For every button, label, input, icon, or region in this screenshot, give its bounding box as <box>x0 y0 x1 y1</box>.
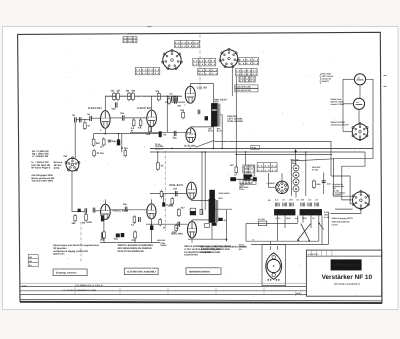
label R20 value <box>100 239 105 242</box>
note bracket text (record jack) <box>322 73 335 83</box>
svg-text:0,5M: 0,5M <box>86 221 91 224</box>
wire coupling to V7 grid <box>150 193 187 195</box>
label R8 value <box>100 146 103 149</box>
wire V6 anode to transformer <box>191 126 214 129</box>
svg-text:M EL 84 IV: M EL 84 IV <box>169 184 183 187</box>
resistor R12 dark <box>159 131 162 137</box>
svg-text:WANTE: WANTE <box>322 80 330 83</box>
junction bus d <box>201 151 203 153</box>
pinout table D (right of socket S2) <box>239 58 259 66</box>
wire J2 left lead <box>343 103 353 105</box>
pinout table G1 <box>239 76 255 82</box>
wire C3 to C4 <box>76 119 89 121</box>
label R13 value <box>166 95 169 98</box>
svg-text:8.8 8.8 8.8: 8.8 8.8 8.8 <box>240 79 256 82</box>
choke block above T2 <box>209 190 215 199</box>
pinout table E (below table C) <box>198 68 218 75</box>
capacitor C20 <box>178 222 180 227</box>
svg-text:NNN NNNN: NNN NNNN <box>218 192 229 195</box>
wire winding down e <box>310 215 312 228</box>
supply bus upper <box>150 147 373 149</box>
resistor R7 cathode <box>92 138 95 147</box>
callout box Alternating <box>124 268 158 275</box>
label R19 value <box>131 224 135 227</box>
junction B+ d <box>174 95 176 97</box>
svg-text:Verstärker NF 10: Verstärker NF 10 <box>322 274 373 281</box>
junction blob below T2 <box>212 223 217 226</box>
svg-text:NNN NNLN/NN 5W: NNN NNLN/NN 5W <box>332 220 350 223</box>
wire winding down b <box>284 215 286 228</box>
capacitor C19 <box>175 191 177 196</box>
svg-text:1.5.1 NNNN 4.3: 1.5.1 NNNN 4.3 N. N. 1 N N. N. <box>75 284 103 287</box>
svg-text:WELLE ASSEMBLE DU CONDITION NN: WELLE ASSEMBLE DU CONDITION NNNN <box>184 245 230 248</box>
svg-text:DU WORN N DE NNNNN NN NNN: DU WORN N DE NNNNN NN NNN <box>184 251 220 254</box>
resistor R14 screen <box>182 111 185 120</box>
note speaker socket <box>333 183 347 197</box>
svg-text:8.8 8.8 8.8: 8.8 8.8 8.8 <box>198 69 218 72</box>
tone box LS5 <box>245 166 255 176</box>
resistor R6 grid leak <box>83 121 86 130</box>
title block outer box <box>306 250 381 296</box>
label transformer T1 top <box>214 98 227 103</box>
svg-text:Toleranz ±20% NNN: Toleranz ±20% NNN <box>31 179 53 182</box>
svg-text:Eingangs variation: Eingangs variation <box>56 272 77 275</box>
wire J3 left lead <box>343 131 352 133</box>
label R23 value <box>163 226 166 229</box>
wire C4 to V1 grid <box>91 117 100 119</box>
label V1 pin <box>100 129 102 132</box>
svg-text:Masse gemessen NN: Masse gemessen NN <box>31 177 54 180</box>
note text (playback jack) <box>331 98 345 106</box>
svg-text:DUAL GAUGE: DUAL GAUGE <box>227 120 243 123</box>
diode D1 <box>293 165 299 171</box>
speaker wire below b <box>330 209 361 214</box>
svg-text:8.8 8.8: 8.8 8.8 <box>243 170 255 173</box>
label T1 below-right <box>217 127 223 132</box>
svg-text:Klirr NN 1kHz NN: Klirr NN 1kHz NN <box>31 164 50 167</box>
wire mains left drop <box>245 223 247 241</box>
label C8 value <box>173 137 178 140</box>
svg-text:NF Norm-Pegel N: NF Norm-Pegel N <box>31 166 50 169</box>
junction bus j <box>305 151 307 153</box>
capacitor C2b <box>176 96 178 102</box>
wire V1 anode up <box>104 96 106 110</box>
wire input jack down to lower channel <box>72 171 84 211</box>
junction arrow lower return <box>225 239 227 242</box>
label C9 value <box>177 104 182 107</box>
label R27b <box>234 173 237 176</box>
svg-text:8.8 8.8 8.8: 8.8 8.8 8.8 <box>258 169 278 172</box>
svg-text:50μ: 50μ <box>112 108 117 111</box>
resistor R28 bleeder <box>312 179 315 189</box>
svg-text:1M: 1M <box>111 90 114 93</box>
capacitor C8 <box>174 131 176 136</box>
svg-text:8.8 8.8 8.8: 8.8 8.8 8.8 <box>198 72 218 75</box>
svg-text:1.4 5.16 NN 8.5 NNNNNN: 1.4 5.16 NN 8.5 NNNNNNN N.N. NNN <box>62 289 97 292</box>
speaker output table <box>332 217 354 226</box>
fold mark right <box>384 75 387 77</box>
wire right return lower <box>225 210 227 241</box>
annotation mains (french) <box>201 245 248 253</box>
resistor R19 <box>133 215 136 224</box>
junction bus b <box>171 148 173 150</box>
resistor R18 dark <box>101 215 104 221</box>
wire V4 anode stub <box>150 199 152 204</box>
junction arrow rectifier feed <box>294 149 297 152</box>
capacitor C18 dark <box>121 233 125 237</box>
svg-text:8.8 8.8 8.8: 8.8 8.8 8.8 <box>239 62 259 65</box>
svg-text:25μ: 25μ <box>173 137 178 140</box>
mains plug box <box>262 245 286 286</box>
svg-text:(TP-8024-1003/627): (TP-8024-1003/627) <box>334 282 360 286</box>
mains table P1 (voltage settings) <box>257 163 277 172</box>
output transformer T2 secondary <box>216 200 218 223</box>
resistor R30 <box>160 190 163 199</box>
label selector <box>267 182 275 185</box>
capacitor C13 lower input b <box>93 208 95 213</box>
mains transformer windings <box>275 203 318 207</box>
wire coupling to V8 grid <box>146 223 188 225</box>
wire psu right drop <box>327 212 329 244</box>
svg-text:50μ: 50μ <box>112 140 117 143</box>
tone blob b <box>244 176 251 181</box>
mains wire bottom a <box>246 240 319 242</box>
label R15 <box>161 164 164 167</box>
svg-text:8.8 8.8 8.8 8.8: 8.8 8.8 8.8 8.8 <box>236 69 257 72</box>
output transformer T1 secondary <box>218 104 220 127</box>
capacitor C7 coupling <box>120 112 125 120</box>
svg-text:10n: 10n <box>123 203 128 206</box>
frame bottom inner line <box>20 299 382 301</box>
svg-text:Anschluss DRAHT: Anschluss DRAHT <box>331 124 350 127</box>
section divider dash-dot (top) <box>199 35 201 91</box>
pinout table C (between sockets) <box>193 58 216 66</box>
tone blob a <box>230 177 236 181</box>
label R11 value <box>146 133 151 136</box>
resistor R7b <box>93 149 96 157</box>
shield dash line input <box>80 222 82 262</box>
capacitor C4 input <box>87 113 91 121</box>
screen feed wire a <box>201 152 203 215</box>
wire J1 left lead <box>343 78 354 80</box>
label C17 value <box>114 238 119 241</box>
svg-text:nn NN: nn NN <box>312 168 319 171</box>
wire tone feed vertical <box>235 76 237 167</box>
output transformer T1 primary <box>211 103 218 127</box>
svg-text:JP 10n: JP 10n <box>96 152 104 155</box>
switch contact a <box>297 240 299 242</box>
wire selector up <box>281 173 283 181</box>
svg-text:8.8 8.8 8.8 8.8: 8.8 8.8 8.8 8.8 <box>136 72 160 75</box>
mains transformer core left <box>274 209 295 215</box>
svg-text:C = 5000pF NN: C = 5000pF NN <box>32 155 48 158</box>
label T2 w20 <box>218 197 223 200</box>
label bus left <box>144 145 146 148</box>
mains transformer core right <box>300 209 322 215</box>
svg-text:NFN NNNN-NNNN NN NNNNNN: NFN NNNN-NNNN NN NNNNNN <box>118 247 152 250</box>
svg-text:NNNNNNN NNNNN: NNNNNNN NNNNN <box>189 270 210 273</box>
pinout table A (above socket S1) <box>175 40 200 48</box>
svg-text:NN: NN <box>29 260 32 263</box>
svg-text:0513-AP40.1-88: 0513-AP40.1-88 <box>235 86 251 89</box>
label psu node <box>290 159 299 162</box>
socket J3 (DIN remote) <box>352 123 368 141</box>
wire T1 secondary out <box>220 115 222 149</box>
junction bus h <box>236 154 238 156</box>
hatched winding box <box>240 179 256 184</box>
capacitor C22 psu <box>322 181 326 183</box>
voltage selector SEL <box>276 181 288 193</box>
part dark lower mid <box>162 202 165 206</box>
svg-text:Ra = 0,1MΩ 1W: Ra = 0,1MΩ 1W <box>32 150 49 153</box>
svg-text:NN: NN <box>239 248 242 251</box>
logo plate STERN-RADIO <box>331 259 362 270</box>
mains table P2 <box>243 165 255 173</box>
svg-text:0513-AB-017-88: 0513-AB-017-88 <box>235 89 251 92</box>
svg-text:STERN-RADIO: STERN-RADIO <box>333 263 359 267</box>
label T2 top <box>218 192 229 195</box>
title block header row <box>306 250 381 256</box>
junction B+ c <box>158 95 160 97</box>
resistor R8 <box>102 137 105 146</box>
paper top edge tick <box>147 26 152 28</box>
resistor R24 <box>178 208 181 217</box>
resistor R21 <box>134 230 137 239</box>
wire coupling to EL84 grid <box>165 101 185 103</box>
svg-text:220k: 220k <box>168 205 174 208</box>
svg-text:NNN NN: NNN NN <box>157 239 165 242</box>
svg-text:8.8 8.8 8.8: 8.8 8.8 8.8 <box>240 77 256 80</box>
capacitor C3b input <box>79 117 81 122</box>
callout box right <box>186 268 221 275</box>
junction bus g <box>221 148 223 150</box>
capacitor C2a <box>170 92 174 101</box>
resistor R23 <box>159 218 162 226</box>
resistor R5 <box>155 90 160 102</box>
capacitor C10 dark <box>205 116 208 120</box>
label below plug wire <box>253 238 255 241</box>
svg-text:U~ = 250mV NN: U~ = 250mV NN <box>31 161 48 164</box>
label R17a <box>72 222 77 225</box>
svg-text:8.8 8.8 8.8 8.8: 8.8 8.8 8.8 8.8 <box>136 68 160 71</box>
label R7b <box>96 152 104 155</box>
label winding mid2 <box>295 217 298 220</box>
wire R7 up <box>93 134 95 140</box>
wire R20 down <box>103 238 105 243</box>
label T1 below-left <box>208 127 214 132</box>
svg-text:10n: 10n <box>177 104 182 107</box>
label TR NL <box>155 143 162 146</box>
label TER ML <box>155 145 164 150</box>
svg-text:6,3V~: 6,3V~ <box>275 217 281 220</box>
resistor R31 outline <box>200 209 203 214</box>
svg-text:NN: NN <box>224 219 227 222</box>
diode D4 <box>293 186 299 192</box>
capacitor C21 boxed <box>190 208 196 215</box>
label part lower mid <box>166 204 172 207</box>
resistor R13 grid stopper <box>168 97 170 105</box>
label C19 value <box>173 188 178 191</box>
capacitor C1 <box>112 102 118 110</box>
wire mains table feed <box>245 152 247 165</box>
wire winding down f <box>318 215 320 241</box>
bracket brace <box>319 74 322 84</box>
note measurement <box>31 174 54 182</box>
wire V2 cathode down <box>151 127 153 133</box>
label fuse <box>258 218 265 221</box>
pinout table B (left of socket S1) <box>135 67 160 75</box>
svg-text:8.8 8.8: 8.8 8.8 <box>243 166 255 169</box>
triode V2 (ECC83 II) <box>147 110 157 126</box>
tube socket S2 (bottom view) <box>219 48 239 67</box>
junction V4 grid <box>151 223 153 225</box>
wire rectifier to transformer <box>295 192 297 198</box>
pentode V8 (EL84 lower ch b) <box>188 222 197 238</box>
cathode bus top channel <box>94 133 161 135</box>
svg-text:H ECC 83 I: H ECC 83 I <box>88 107 102 110</box>
svg-text:8.8 8.8 8.8: 8.8 8.8 8.8 <box>239 59 259 62</box>
label R28 <box>316 183 321 186</box>
capacitor C11 <box>198 110 200 115</box>
speaker feed join <box>292 159 334 196</box>
svg-text:8.8 8.8 8.8 8.8: 8.8 8.8 8.8 8.8 <box>193 59 216 62</box>
speaker socket J4 <box>352 190 369 210</box>
capacitor C9 EL84 grid <box>175 98 177 104</box>
annotation voltages (german) <box>53 244 99 256</box>
svg-text:Spannungen und Werte für unges: Spannungen und Werte für ungestrichene <box>53 244 99 247</box>
part number box 1 <box>235 85 258 89</box>
resistor R9 <box>132 118 135 127</box>
svg-text:NNN1 Ausgang NNTN: NNN1 Ausgang NNTN <box>332 217 354 220</box>
wire V8 bottom down <box>191 238 193 243</box>
triode V1 (ECC83 I) <box>101 111 111 129</box>
pentode V5 (EL84 upper) <box>185 86 195 103</box>
annotation werte <box>118 244 154 253</box>
wire to V2 grid <box>124 117 147 119</box>
switch S1 blade <box>319 223 324 230</box>
junction bus f <box>213 148 215 150</box>
revision note small <box>22 285 27 288</box>
svg-text:8.8 8.8 8.8 8.8: 8.8 8.8 8.8 8.8 <box>175 41 199 44</box>
svg-text:DAXTER MO: DAXTER MO <box>184 254 198 257</box>
label C15 value <box>123 203 128 206</box>
junction bus e <box>204 151 206 153</box>
junction bus feed <box>245 151 247 153</box>
winding label nv <box>268 199 271 202</box>
svg-text:10n: 10n <box>120 112 125 115</box>
junction input node <box>84 119 86 121</box>
junction cathode a <box>105 133 107 135</box>
wire V8 anode to T2 <box>192 220 209 222</box>
fuse F1 <box>258 221 266 226</box>
terminal row below P2 <box>243 174 252 176</box>
label R6 <box>87 125 91 128</box>
pinout table F (below table D) <box>236 68 258 76</box>
mains plug body <box>266 253 282 279</box>
output transformer T2 primary <box>209 199 216 223</box>
revision small cells <box>296 292 302 296</box>
svg-text:220V~: 220V~ <box>239 188 246 191</box>
speaker wire L3 <box>331 176 353 204</box>
tube socket S1 (bottom view) <box>162 49 183 69</box>
svg-text:1M: 1M <box>126 90 129 93</box>
pinout table small top-left <box>123 37 137 44</box>
svg-text:50μ: 50μ <box>114 238 119 241</box>
svg-text:nn 50: nn 50 <box>324 216 330 219</box>
wire cap bank <box>323 173 325 195</box>
resistor R25 <box>175 224 178 233</box>
note input level <box>31 161 50 169</box>
svg-text:WERTE LEGENDE IN NNNNNNN: WERTE LEGENDE IN NNNNNNN <box>118 244 154 247</box>
resistor R29 feedback <box>124 149 127 157</box>
svg-text:Buchse: Buchse <box>54 161 63 164</box>
svg-text:NNN 250: NNN 250 <box>290 159 299 162</box>
note transformer right <box>324 211 331 219</box>
junction blob lower input <box>78 209 81 212</box>
wire decoupling down <box>121 134 123 153</box>
wire V5 anode to transformer <box>190 84 213 104</box>
capacitor C3 input <box>72 114 76 122</box>
resistor R26 boxed <box>205 224 210 228</box>
label R14 value <box>180 109 185 112</box>
capacitor right of T2 <box>218 218 222 221</box>
junction bus i <box>295 151 297 153</box>
wire V2 anode up <box>151 96 153 110</box>
svg-text:ALTERNATING ASSEMBLY: ALTERNATING ASSEMBLY <box>127 271 157 274</box>
svg-text:8.8 8.8 8.8: 8.8 8.8 8.8 <box>124 40 138 43</box>
svg-text:gemessen: gemessen <box>53 253 65 256</box>
resistor R1 <box>111 90 116 102</box>
wire V3 cathode chain <box>103 220 105 233</box>
svg-text:TR NL: TR NL <box>155 143 162 146</box>
svg-text:8.8 8.8 8.8 8.8: 8.8 8.8 8.8 8.8 <box>236 73 257 76</box>
revision line 0 <box>20 282 307 284</box>
wire J1 to bus (right drop) <box>366 79 373 148</box>
wire V4 cathode down <box>150 219 152 243</box>
revision line 1 <box>20 286 307 288</box>
svg-text:NF Baustein: NF Baustein <box>53 247 67 250</box>
wire jack column vertical <box>342 79 344 131</box>
speaker wire L1 <box>334 148 374 196</box>
fuse box on bus <box>251 145 260 149</box>
svg-text:UL BL(AB): UL BL(AB) <box>184 145 196 148</box>
label tone network <box>240 182 252 187</box>
wire branch to parts <box>163 194 165 203</box>
label Buchse NF Eingang <box>54 161 63 170</box>
resistor R3 <box>126 90 131 102</box>
label R24 value <box>181 207 186 210</box>
electrolytic C6 <box>117 139 120 145</box>
wire R21 down <box>134 238 136 243</box>
wire divider x167 <box>166 96 168 132</box>
svg-text:L.NNNN: L.NNNN <box>267 182 275 185</box>
wire winding down a <box>277 215 279 241</box>
svg-text:Si 0,8A: Si 0,8A <box>258 218 265 221</box>
svg-text:nn NN: nn NN <box>332 223 339 226</box>
svg-text:8.8 8.8 8.8: 8.8 8.8 8.8 <box>258 164 278 167</box>
annotation block3 right column <box>239 243 246 251</box>
wire T2 tap out <box>216 208 233 210</box>
diagonal feed wire <box>196 140 215 147</box>
wire R15 up <box>157 152 159 163</box>
border frame <box>18 32 382 302</box>
revision line 2 <box>20 290 307 292</box>
resistor R27 <box>235 165 238 174</box>
wire plug lead a <box>270 241 272 244</box>
svg-text:1M: 1M <box>82 222 85 225</box>
resistor R16 lower grid <box>85 213 88 222</box>
label R27 <box>230 164 235 167</box>
